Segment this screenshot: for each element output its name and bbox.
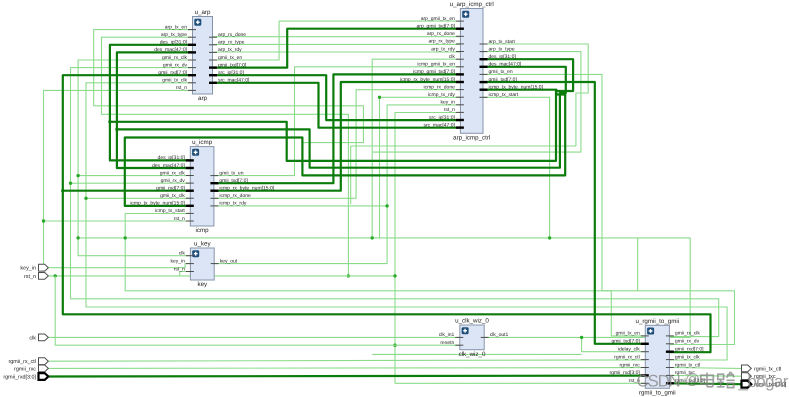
junction clk T junction <box>371 236 374 239</box>
wire net rst_n branch to u_icmp.rst_n <box>44 220 191 222</box>
pin u_rgmii_to_gmii.rst_n (input) <box>641 382 649 384</box>
pin u_arp_icmp_ctrl.icmp_tx_byte_num[15:0] (output) <box>480 88 488 90</box>
module u_rgmii_to_gmii <box>610 318 706 397</box>
pin u_arp_icmp_ctrl.src_mac[47:0] (input) <box>456 126 464 128</box>
pin u_arp.gmii_rxd[7:0] (input) <box>188 74 196 76</box>
pin u_arp_icmp_ctrl.arp_tx_type (output) <box>480 51 488 53</box>
svg-text:icmp_tx_rdy: icmp_tx_rdy <box>219 201 246 207</box>
wire net rst_n riser to ctrl.rst_n and rgmii rst_n <box>395 113 645 384</box>
wire net rgmii_rxc <box>49 367 646 370</box>
svg-text:src_ip[31:0]: src_ip[31:0] <box>218 70 244 76</box>
pin u_arp.arp_tx_rdy (output) <box>209 51 217 53</box>
wire net arp_tx_start long loop <box>351 44 589 204</box>
wire net icmp_tx_byte_num <box>125 90 565 206</box>
output port rgmii_txc <box>742 373 776 380</box>
junction gmii_rx_clk x clk junction <box>76 236 79 239</box>
svg-text:arp_rx_done: arp_rx_done <box>218 32 246 38</box>
junction rst_n port junction <box>54 274 57 277</box>
svg-text:rgmii_rx_ctl: rgmii_rx_ctl <box>614 354 640 360</box>
pin u_arp.des_mac[47:0] (input) <box>188 51 196 53</box>
svg-text:gmii_tx_clk: gmii_tx_clk <box>675 354 700 360</box>
wire net icmp_rx_byte_num <box>214 82 461 191</box>
pin u_arp.des_ip[31:0] (input) <box>188 44 196 46</box>
wire net gmii_tx_en to rgmii <box>483 74 645 336</box>
pin u_arp_icmp_ctrl.icmp_tx_start (output) <box>480 96 488 98</box>
pin u_icmp.gmii_tx_en (output) <box>210 175 218 177</box>
pin u_arp.gmii_tx_en (output) <box>209 59 217 61</box>
junction icmp_tx_start T on clk row <box>548 236 551 239</box>
output port rgmii_txd[3:0] <box>742 381 787 388</box>
wire net icmp_tx_start riser <box>483 97 550 238</box>
junction rst_n branch T <box>42 219 45 222</box>
pin u_arp_icmp_ctrl.des_mac[47:0] (output) <box>480 66 488 68</box>
wire net icmp_gmii_tx_en <box>214 67 461 176</box>
svg-text:@: @ <box>685 372 700 388</box>
pin u_arp_icmp_ctrl.arp_gmii_txd[7:0] (input) <box>456 28 464 30</box>
svg-text:gmii_tx_en: gmii_tx_en <box>218 55 242 61</box>
junction rst_n junction on resetn row <box>393 344 396 347</box>
pin u_rgmii_to_gmii.rgmii_txd[3:0] (output) <box>666 382 674 384</box>
svg-text:gmii_tx_en: gmii_tx_en <box>219 170 243 176</box>
svg-text:gmii_txd[7:0]: gmii_txd[7:0] <box>219 178 248 184</box>
wire net des_ip return to ctrl <box>110 59 573 161</box>
svg-text:clk: clk <box>179 251 186 257</box>
pin u_arp_icmp_ctrl.gmii_txd[7:0] (output) <box>480 81 488 83</box>
wire net rgmii_tx_ctl <box>669 367 741 370</box>
pin u_icmp.icmp_rx_done (output) <box>210 197 218 199</box>
svg-text:gmii_rx_dv: gmii_rx_dv <box>675 339 700 345</box>
svg-text:CSDN: CSDN <box>637 371 680 390</box>
svg-text:u_key: u_key <box>194 241 211 248</box>
svg-text:key_in: key_in <box>170 258 185 264</box>
pin u_icmp.icmp_tx_start (input) <box>186 212 194 214</box>
junction des_ip T <box>108 120 111 123</box>
pin u_icmp.gmii_rxd[7:0] (input) <box>186 189 194 191</box>
pin u_arp_icmp_ctrl.arp_tx_start (output) <box>480 43 488 45</box>
junction gmii_rx_clk T <box>76 174 79 177</box>
svg-text:icmp_tx_start: icmp_tx_start <box>489 92 519 98</box>
pin u_rgmii_to_gmii.rgmii_rx_ctl (input) <box>641 359 649 361</box>
svg-text:arp_tx_type: arp_tx_type <box>489 46 515 52</box>
wire net gmii_rx_clk trunk / u_key.clk <box>78 60 192 256</box>
pin u_arp.arp_rx_type (output) <box>209 44 217 46</box>
svg-text:clk: clk <box>449 54 456 60</box>
pin u_key.clk (input) <box>186 255 194 257</box>
svg-text:u_arp_icmp_ctrl: u_arp_icmp_ctrl <box>450 1 494 8</box>
wire net clk port to clk_wiz.clk_in1 <box>49 336 460 338</box>
pin u_clk_wiz_0.clk_out1 (output) <box>481 336 489 338</box>
svg-text:icmp: icmp <box>196 227 210 234</box>
wire net key_in port run <box>49 264 191 268</box>
svg-text:icmp_rx_done: icmp_rx_done <box>219 193 251 199</box>
pin u_arp_icmp_ctrl.icmp_gmii_txd[7:0] (input) <box>456 73 464 75</box>
input port rgmii_rxd[3:0] <box>3 373 48 380</box>
svg-text:arp_gmii_tx_en: arp_gmii_tx_en <box>421 16 455 22</box>
svg-text:rgmii_to_gmii: rgmii_to_gmii <box>639 390 676 397</box>
wire net gmii_rx_dv branch to icmp <box>71 182 191 184</box>
svg-text:icmp_gmii_tx_en: icmp_gmii_tx_en <box>417 62 455 68</box>
svg-text:key_in: key_in <box>440 100 455 106</box>
svg-text:arp_rx_type: arp_rx_type <box>428 39 455 45</box>
svg-text:icmp_gmii_txd[7:0]: icmp_gmii_txd[7:0] <box>413 69 455 75</box>
pin u_arp.gmii_tx_clk (input) <box>188 82 196 84</box>
pin u_rgmii_to_gmii.gmii_tx_clk (output) <box>666 359 674 361</box>
wire net arp_rx_type <box>213 43 461 45</box>
pin u_arp_icmp_ctrl.arp_gmii_tx_en (input) <box>456 20 464 22</box>
svg-text:icmp_tx_rdy: icmp_tx_rdy <box>428 92 455 98</box>
svg-text:src_mac[47:0]: src_mac[47:0] <box>423 122 455 128</box>
pin u_arp_icmp_ctrl.arp_rx_type (input) <box>456 43 464 45</box>
module u_arp_icmp_ctrl <box>400 1 543 142</box>
pin u_arp_icmp_ctrl.arp_rx_done (input) <box>456 35 464 37</box>
pin u_icmp.des_mac[47:0] (input) <box>186 167 194 169</box>
wire net icmp_gmii_txd <box>214 74 461 183</box>
svg-text:arp_tx_start: arp_tx_start <box>489 39 516 45</box>
pin u_arp_icmp_ctrl.icmp_rx_byte_num[15:0] (input) <box>456 81 464 83</box>
junction rst_n riser junction <box>393 274 396 277</box>
wire net arp_tx_rdy <box>213 51 461 53</box>
svg-text:u_rgmii_to_gmii: u_rgmii_to_gmii <box>635 318 679 325</box>
pin u_arp.src_ip[31:0] (output) <box>209 74 217 76</box>
wire net clk branch to idelay_clk <box>582 337 646 351</box>
svg-text:_bogar: _bogar <box>738 372 789 391</box>
svg-text:gmii_rx_dv: gmii_rx_dv <box>161 178 186 184</box>
svg-text:gmii_tx_en: gmii_tx_en <box>616 331 640 337</box>
pin u_icmp.des_ip[31:0] (input) <box>186 159 194 161</box>
svg-text:arp_icmp_ctrl: arp_icmp_ctrl <box>453 135 490 142</box>
wire net icmp_tx_rdy riser <box>380 97 461 238</box>
svg-text:des_mac[47:0]: des_mac[47:0] <box>489 62 522 68</box>
pin u_rgmii_to_gmii.idelay_clk (input) <box>641 351 649 353</box>
svg-text:icmp_tx_byte_num[15:0]: icmp_tx_byte_num[15:0] <box>489 85 544 91</box>
pin u_icmp.gmii_tx_clk (input) <box>186 197 194 199</box>
svg-text:key_out: key_out <box>220 258 238 264</box>
wire net icmp_tx_start west feed <box>125 213 190 215</box>
svg-text:rst_n: rst_n <box>174 216 185 222</box>
svg-text:arp_rx_done: arp_rx_done <box>427 31 455 37</box>
wire net src_mac <box>213 83 461 128</box>
watermark CSDN @ user <box>637 371 789 391</box>
pin u_icmp.icmp_tx_byte_num[15:0] (input) <box>186 205 194 207</box>
wire net gmii_tx_clk branch to icmp <box>86 197 190 199</box>
wire net gmii_rxd trunk loop <box>63 75 711 352</box>
module u_key <box>170 241 237 289</box>
junction gmii_rx_clk clk-row junction <box>124 236 127 239</box>
pin u_arp.arp_tx_type (input) <box>188 36 196 38</box>
input port rst_n <box>24 273 48 280</box>
svg-text:arp_rx_type: arp_rx_type <box>218 40 245 46</box>
wire net gmii_tx_clk loop <box>86 83 727 360</box>
wire net rst_n left trunk <box>44 90 193 276</box>
wire net rgmii_rxd port run <box>49 375 646 378</box>
junction gmii_rxd T <box>61 189 64 192</box>
svg-text:arp: arp <box>198 95 208 102</box>
wire net gmii_rx_clk east return loop <box>125 214 734 345</box>
pin u_arp_icmp_ctrl.arp_tx_rdy (input) <box>456 51 464 53</box>
junction idelay_clk T junction <box>580 336 583 339</box>
svg-text:des_mac[47:0]: des_mac[47:0] <box>154 47 187 53</box>
svg-text:arp_tx_type: arp_tx_type <box>161 32 187 38</box>
svg-text:gmii_rxd[7:0]: gmii_rxd[7:0] <box>675 347 704 353</box>
pin u_arp.arp_rx_done (output) <box>209 36 217 38</box>
svg-text:rgmii_tx_ctl: rgmii_tx_ctl <box>675 362 700 368</box>
wire net clk riser to ctrl.clk <box>372 59 460 238</box>
pin u_rgmii_to_gmii.gmii_tx_en (input) <box>641 335 649 337</box>
pin u_arp.gmii_rx_clk (input) <box>188 59 196 61</box>
svg-text:des_ip[31:0]: des_ip[31:0] <box>158 155 186 161</box>
pin u_arp_icmp_ctrl.rst_n (input) <box>456 111 464 113</box>
svg-text:rst_n: rst_n <box>174 266 185 272</box>
wire net des_mac return to ctrl <box>117 67 566 168</box>
svg-text:gmii_txd[7:0]: gmii_txd[7:0] <box>218 62 247 68</box>
svg-text:src_mac[47:0]: src_mac[47:0] <box>218 78 250 84</box>
svg-text:icmp_rx_done: icmp_rx_done <box>423 84 455 90</box>
wire net rst_n port run <box>49 275 396 277</box>
wire net clk stub to east return row <box>637 238 639 291</box>
pin u_icmp.rst_n (input) <box>186 220 194 222</box>
svg-text:u_clk_wiz_0: u_clk_wiz_0 <box>455 318 489 325</box>
pin u_rgmii_to_gmii.gmii_rx_clk (output) <box>666 335 674 337</box>
svg-text:gmii_rx_clk: gmii_rx_clk <box>160 170 186 176</box>
wire net idelay_clk west run <box>372 353 581 355</box>
pin u_rgmii_to_gmii.gmii_txd[7:0] (input) <box>641 343 649 345</box>
pin u_rgmii_to_gmii.rgmii_txc (output) <box>666 374 674 376</box>
svg-text:des_mac[47:0]: des_mac[47:0] <box>152 163 185 169</box>
wire net gmii_rxd branch to icmp <box>63 190 191 192</box>
svg-text:gmii_rx_dv: gmii_rx_dv <box>163 62 188 68</box>
svg-text:rgmii_rxd[3:0]: rgmii_rxd[3:0] <box>3 375 36 381</box>
svg-text:u_arp: u_arp <box>195 9 211 16</box>
junction gmii_tx_clk T <box>84 197 87 200</box>
pin u_arp_icmp_ctrl.icmp_rx_done (input) <box>456 89 464 91</box>
svg-text:arp_tx_rdy: arp_tx_rdy <box>218 47 242 53</box>
pin u_arp_icmp_ctrl.gmii_tx_en (output) <box>480 73 488 75</box>
svg-text:icmp_rx_byte_num[15:0]: icmp_rx_byte_num[15:0] <box>400 77 455 83</box>
output port rgmii_tx_ctl <box>742 365 782 372</box>
pin u_rgmii_to_gmii.rgmii_rxd[3:0] (input) <box>641 374 649 376</box>
pin u_clk_wiz_0.resetn (input) <box>455 344 463 346</box>
svg-text:gmii_tx_clk: gmii_tx_clk <box>162 78 187 84</box>
svg-text:rgmii_rx_ctl: rgmii_rx_ctl <box>8 359 36 365</box>
svg-text:rst_n: rst_n <box>24 274 36 280</box>
svg-text:key_in: key_in <box>20 266 36 272</box>
pin u_arp_icmp_ctrl.des_ip[31:0] (output) <box>480 58 488 60</box>
pin u_arp_icmp_ctrl.icmp_tx_rdy (input) <box>456 96 464 98</box>
pin u_icmp.gmii_rx_clk (input) <box>186 175 194 177</box>
wire net arp_gmii_txd <box>213 29 461 68</box>
pin u_arp.arp_tx_en (input) <box>188 29 196 31</box>
svg-text:key: key <box>197 281 208 288</box>
input port key_in <box>20 264 48 271</box>
svg-text:arp_gmii_txd[7:0]: arp_gmii_txd[7:0] <box>417 24 456 30</box>
wire net rgmii_txc <box>669 374 741 377</box>
svg-text:arp_tx_rdy: arp_tx_rdy <box>431 46 455 52</box>
wire net rgmii_rx_ctl <box>49 360 646 361</box>
wire net src_ip <box>213 75 461 120</box>
wire net arp_tx_type east loop <box>372 52 581 153</box>
junction icmp_tx_rdy corner junction <box>378 96 381 99</box>
wire net arp_tx_en upper run <box>94 30 364 143</box>
pin u_icmp.icmp_rx_byte_num[15:0] (output) <box>210 189 218 191</box>
wire net rst_n jog into u_key.rst_n <box>180 272 191 276</box>
pin u_rgmii_to_gmii.rgmii_rxc (input) <box>641 367 649 369</box>
svg-text:clk_out1: clk_out1 <box>490 332 509 338</box>
pin u_arp.src_mac[47:0] (output) <box>209 82 217 84</box>
input port clk <box>29 334 48 341</box>
wire net gmii_txd to rgmii <box>483 82 645 344</box>
wire net arp_rx_done <box>213 36 461 38</box>
svg-text:gmii_tx_en: gmii_tx_en <box>489 69 513 75</box>
pin u_arp_icmp_ctrl.src_ip[31:0] (input) <box>456 119 464 121</box>
svg-text:icmp_tx_start: icmp_tx_start <box>155 208 185 214</box>
svg-text:gmii_rxd[7:0]: gmii_rxd[7:0] <box>156 186 185 192</box>
wire net arp_gmii_tx_en <box>213 21 461 60</box>
wire net rgmii_txd port run <box>669 382 741 385</box>
junction des_mac T <box>115 128 118 131</box>
pin u_arp_icmp_ctrl.icmp_gmii_tx_en (input) <box>456 66 464 68</box>
module u_arp <box>154 9 250 102</box>
svg-text:arp_tx_en: arp_tx_en <box>165 24 187 30</box>
junction rst_n net T at port run <box>347 274 350 277</box>
pin u_key.key_out (output) <box>211 263 219 265</box>
pin u_key.rst_n (input) <box>186 271 194 273</box>
wire net clk_out1 main loop <box>78 238 690 338</box>
pin u_arp.gmii_txd[7:0] (output) <box>209 66 217 68</box>
svg-text:gmii_txd[7:0]: gmii_txd[7:0] <box>489 77 518 83</box>
wire net icmp_rx_done <box>214 90 461 199</box>
svg-text:clk: clk <box>29 335 36 341</box>
svg-text:gmii_rx_clk: gmii_rx_clk <box>675 331 701 337</box>
wire net arp_tx_type upper run <box>102 37 349 276</box>
svg-text:src_ip[31:0]: src_ip[31:0] <box>429 115 455 121</box>
wire net gmii_rx_dv loop <box>71 68 719 337</box>
svg-text:des_ip[31:0]: des_ip[31:0] <box>160 40 188 46</box>
svg-text:gmii_rxd[7:0]: gmii_rxd[7:0] <box>158 70 187 76</box>
svg-text:rgmii_rxc: rgmii_rxc <box>14 366 36 372</box>
svg-text:u_icmp: u_icmp <box>192 139 213 146</box>
wire net gmii_rx_clk branch to icmp <box>78 175 190 177</box>
pin u_key.key_in (input) <box>186 263 194 265</box>
svg-text:gmii_txd[7:0]: gmii_txd[7:0] <box>611 339 640 345</box>
wire net des_ip west tree <box>110 45 193 161</box>
svg-text:rst_n: rst_n <box>444 107 455 113</box>
pin u_arp_icmp_ctrl.clk (input) <box>456 58 464 60</box>
svg-text:clk_wiz_0: clk_wiz_0 <box>459 351 486 358</box>
svg-text:icmp_tx_byte_num[15:0]: icmp_tx_byte_num[15:0] <box>130 201 185 207</box>
svg-text:idelay_clk: idelay_clk <box>618 347 640 353</box>
wire net rst_n riser to clk_wiz resetn <box>55 276 460 345</box>
module u_icmp <box>130 139 274 234</box>
pin u_arp.gmii_rx_dv (input) <box>188 67 196 69</box>
input port rgmii_rxc <box>14 365 48 372</box>
svg-text:rst_n: rst_n <box>176 85 187 91</box>
pin u_arp.rst_n (input) <box>188 89 196 91</box>
input port rgmii_rx_ctl <box>8 358 48 365</box>
svg-text:icmp_rx_byte_num[15:0]: icmp_rx_byte_num[15:0] <box>219 186 274 192</box>
pin u_rgmii_to_gmii.rgmii_tx_ctl (output) <box>666 367 674 369</box>
svg-text:gmii_rx_clk: gmii_rx_clk <box>162 55 188 61</box>
junction icmp_tx_rdy T on key riser <box>385 204 388 207</box>
pin u_arp_icmp_ctrl.key_in (input) <box>456 104 464 106</box>
pin u_rgmii_to_gmii.gmii_rxd[7:0] (output) <box>666 351 674 353</box>
pin u_icmp.icmp_tx_rdy (output) <box>210 205 218 207</box>
wire net key_out riser to ctrl.key_in <box>214 105 460 264</box>
svg-text:gmii_tx_clk: gmii_tx_clk <box>160 193 185 199</box>
svg-text:des_ip[31:0]: des_ip[31:0] <box>489 54 517 60</box>
pin u_icmp.gmii_rx_dv (input) <box>186 182 194 184</box>
pin u_icmp.gmii_txd[7:0] (output) <box>210 182 218 184</box>
svg-text:clk_in1: clk_in1 <box>439 332 455 338</box>
wire net icmp_tx_rdy east run <box>214 205 387 207</box>
junction gmii_rx_dv T <box>69 182 72 185</box>
pin u_clk_wiz_0.clk_in1 (input) <box>455 336 463 338</box>
svg-text:rgmii_rxc: rgmii_rxc <box>620 362 641 368</box>
pin u_rgmii_to_gmii.gmii_rx_dv (output) <box>666 343 674 345</box>
svg-text:resetn: resetn <box>440 340 454 346</box>
wire net des_mac west tree <box>117 52 193 168</box>
module u_clk_wiz_0 <box>439 318 509 358</box>
